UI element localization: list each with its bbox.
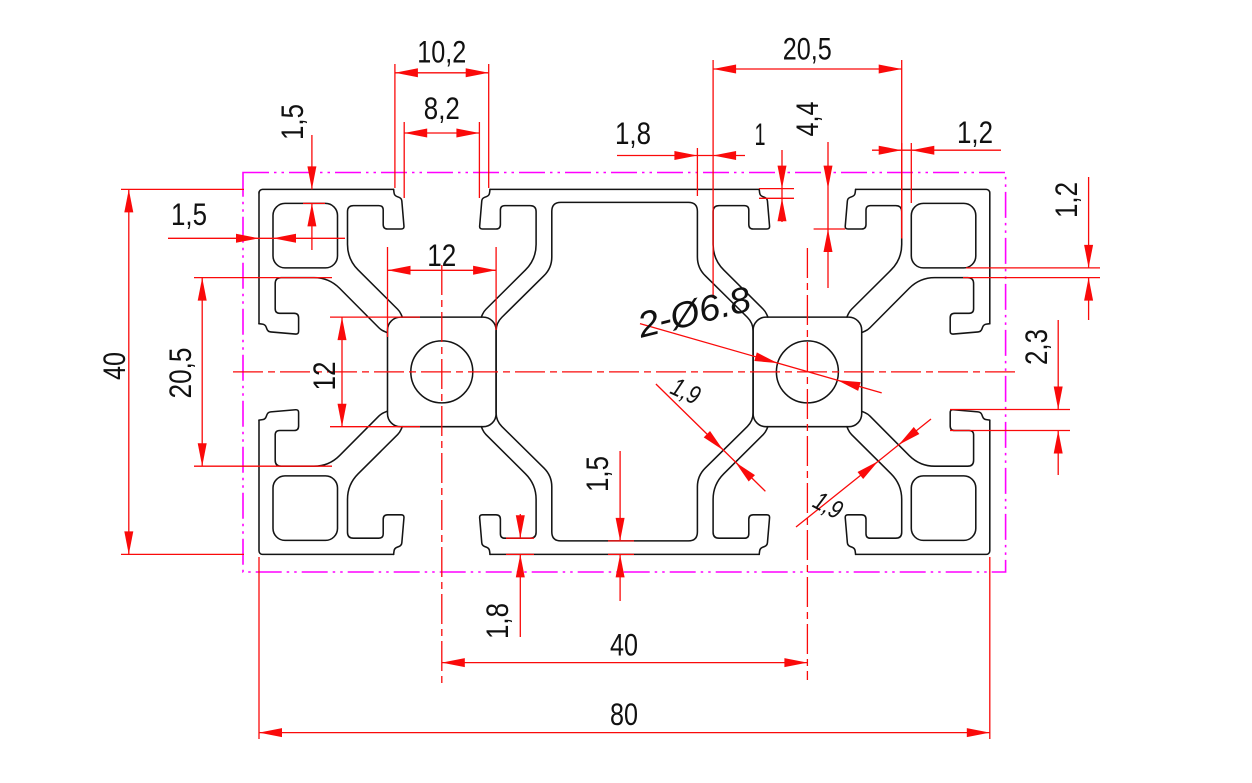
right core hole Ø6.8 (776, 341, 838, 403)
right boss (753, 317, 862, 427)
top-left T-slot right lip (480, 189, 536, 317)
top-right T-slot right lip (845, 189, 901, 317)
svg-text:10,2: 10,2 (417, 33, 466, 69)
svg-text:80: 80 (610, 696, 638, 732)
dimension 20,5 (cavity width, top) (712, 60, 714, 298)
bottom-right T-slot right lip (845, 427, 901, 555)
left unit vertical centerline (441, 265, 443, 686)
svg-text:1,8: 1,8 (615, 115, 651, 151)
left boss (388, 317, 497, 427)
dimension 8,2 (slot opening width) (403, 122, 405, 198)
svg-text:1,2: 1,2 (1048, 182, 1084, 218)
top-right T-slot left lip (713, 189, 769, 317)
svg-text:1: 1 (755, 116, 766, 152)
dimension 1,9 (web thickness, center) (656, 384, 766, 491)
dimension 20,5 (cavity width, left) (194, 277, 332, 279)
svg-text:1,2: 1,2 (957, 114, 993, 150)
dimension 1,5 (bottom wall thickness) (619, 451, 621, 541)
outer top-middle segment (490, 188, 759, 190)
dimension 1,2 (wall between web and corner cavity) (901, 143, 903, 239)
bottom-right T-slot left lip (713, 427, 769, 555)
svg-text:20,5: 20,5 (783, 31, 832, 67)
dimension 12 (boss height) (330, 316, 420, 318)
svg-text:1,5: 1,5 (274, 104, 310, 140)
dimension 80 (profile width) (258, 557, 260, 739)
outer left face (258, 193, 260, 324)
left core hole Ø6.8 (411, 341, 473, 403)
bottom-left T-slot right lip (480, 427, 536, 555)
svg-text:4,4: 4,4 (789, 102, 825, 137)
dimension 1,2 (right side wall) (966, 267, 1100, 269)
dimension 2,3 (lip overhang, right) (950, 409, 1070, 411)
svg-text:1,5: 1,5 (171, 196, 207, 232)
dimension 40 (profile height) (121, 188, 244, 190)
dimension 1 (slot shoulder depth) (781, 150, 783, 222)
bottom-left T-slot left lip (348, 427, 404, 555)
outer top-left segment (259, 189, 394, 193)
outer bottom-left segment (259, 420, 394, 554)
envelope boundary (max material) (243, 173, 1006, 573)
dimension 1,8 (web thickness, top) (696, 148, 698, 196)
left-face T-slot lower lip (259, 410, 387, 466)
corner cavity BL (273, 476, 338, 541)
dimension 12 (boss width) (387, 247, 389, 337)
outer bottom-middle segment (490, 553, 759, 555)
svg-text:12: 12 (427, 237, 456, 273)
svg-text:12: 12 (306, 362, 342, 391)
central cavity (496, 202, 753, 541)
dimension 40 (unit pitch) (442, 662, 808, 664)
right-face T-slot upper lip (862, 278, 990, 334)
dimension 1,9 (web thickness, bottom right) (796, 419, 931, 527)
corner cavity BR (911, 476, 976, 541)
leader 2-Ø6.8 (core holes) (640, 324, 882, 393)
svg-text:2,3: 2,3 (1018, 329, 1054, 365)
left-face T-slot upper lip (259, 278, 387, 334)
outer bottom-right segment (856, 420, 990, 554)
corner cavity TR (911, 203, 976, 268)
dimension 1,8 (ear floor wall thickness) (519, 514, 521, 538)
right unit vertical centerline (806, 248, 808, 680)
svg-text:40: 40 (96, 352, 132, 380)
svg-text:20,5: 20,5 (162, 348, 198, 399)
dimension 10,2 (slot outer step width) (394, 64, 396, 188)
dimension 4,4 (slot ledge depth) (827, 142, 829, 288)
svg-text:40: 40 (610, 626, 638, 662)
dimension 1,5 (top wall thickness) (311, 135, 313, 189)
svg-text:8,2: 8,2 (424, 90, 460, 126)
horizontal centerline (233, 371, 1016, 373)
corner cavity TL (273, 203, 338, 268)
svg-text:1,8: 1,8 (479, 603, 515, 639)
outer top-right and right face (856, 189, 990, 323)
dimension 1,5 (left wall thickness) (168, 237, 345, 239)
top-left T-slot left lip (348, 189, 404, 317)
svg-text:1,5: 1,5 (579, 456, 615, 492)
right-face T-slot lower lip (862, 410, 990, 466)
